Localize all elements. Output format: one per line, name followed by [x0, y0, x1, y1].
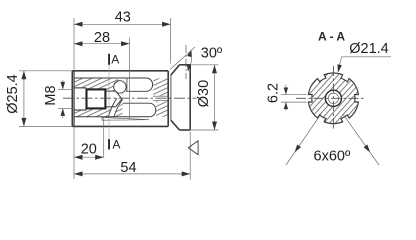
svg-text:M8: M8 — [43, 85, 59, 105]
svg-text:A - A: A - A — [318, 29, 345, 43]
svg-text:6x60º: 6x60º — [314, 148, 351, 164]
svg-text:Ø21.4: Ø21.4 — [349, 41, 389, 57]
svg-text:A: A — [111, 53, 119, 67]
svg-text:Ø30: Ø30 — [196, 80, 212, 107]
svg-text:28: 28 — [94, 30, 110, 46]
svg-text:43: 43 — [115, 9, 131, 25]
svg-text:A: A — [112, 137, 120, 151]
svg-text:54: 54 — [120, 160, 136, 176]
svg-text:20: 20 — [81, 141, 97, 157]
svg-text:6.2: 6.2 — [266, 83, 282, 103]
svg-text:Ø25.4: Ø25.4 — [5, 74, 21, 114]
svg-text:30º: 30º — [201, 46, 223, 62]
